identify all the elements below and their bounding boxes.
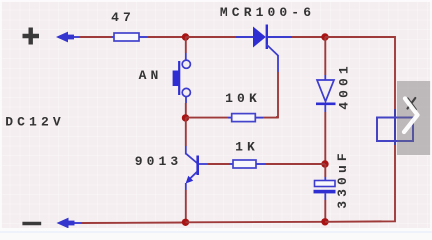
SCR gate diagonal [267,45,279,56]
lead 10K left [228,117,232,119]
svg-text:10K: 10K [225,91,261,106]
lead R47 left [111,36,114,38]
wire node C to capacitor [324,164,326,177]
lead collector [185,146,187,155]
wire top bus: SCR to node B [292,36,325,38]
capacitor C 330uF negative plate [314,190,336,194]
svg-text:47: 47 [111,10,135,25]
carousel next-arrow grey overlay [397,81,431,155]
lead button top [185,53,187,60]
svg-text:9013: 9013 [135,154,183,169]
wire diode branch upper [324,37,326,75]
lead 1K right [256,163,266,165]
node D junction (button/10K/collector) [182,114,189,121]
lead emitter [185,183,187,190]
button AN actuator shaft [178,61,180,95]
node A junction (top of button branch) [182,33,189,40]
wire gate vertical to 10K [277,72,279,118]
node C junction (1K meets cap branch) [321,160,328,167]
lead SCR anode [236,36,253,38]
wire node D to 10K [186,117,229,119]
lead capacitor bottom [324,193,326,200]
wire top bus: node B to right corner [325,37,395,109]
lead button bottom [185,97,187,103]
label K (relay designator over overlay) [408,98,416,110]
transistor Q 9013 emitter diagonal [188,172,197,181]
node B junction (top of diode branch) [321,33,328,40]
diode D 4001 triangle [317,80,334,102]
wire top bus: arrow to R47 [79,36,111,38]
wire node D down to transistor collector [185,118,187,146]
lead diode anode [324,75,326,80]
svg-text:MCR100-6: MCR100-6 [220,5,315,20]
lead R47 right [139,36,147,38]
wire button to node D [185,103,187,118]
wire base to 1K [208,163,229,165]
svg-text:DC12V: DC12V [5,115,65,130]
lead SCR cathode right [268,36,292,38]
diode cathode bar [316,103,336,106]
SCR cathode bar [266,25,268,50]
button AN cap [173,71,179,87]
svg-text:4001: 4001 [337,62,352,110]
wire top bus: R47 to node A [147,36,186,38]
wire capacitor to bottom bus [324,200,326,222]
lead 1K left [229,163,233,165]
wire 1K to node C [266,163,325,165]
wire button branch upper [185,37,187,53]
photo edge vignette [0,0,432,2]
SCR gate lead down [277,55,279,72]
svg-text:1K: 1K [235,140,259,155]
wire 10K to gate corner [263,116,277,118]
relay coil lead (blue, through coil) [394,109,396,145]
port arrow (bottom, to -) [57,218,83,229]
svg-text:330uF: 330uF [335,149,350,209]
transistor Q 9013 base bar [196,156,199,176]
lead base [199,163,208,165]
relay coil K [377,118,413,142]
wire bottom bus: arrow to node E [82,222,186,225]
transistor Q 9013 emitter arrow [186,176,194,184]
node F junction (capacitor on bottom bus) [321,218,328,225]
carousel chevron stroke [404,99,418,133]
SCR MCR100-6 anode triangle [253,27,266,48]
node E junction (emitter on bottom bus) [182,219,189,226]
svg-text:AN: AN [139,68,163,83]
lead capacitor top [324,177,326,181]
capacitor C 330uF positive plate [315,181,336,187]
port arrow (top, to +) [56,32,80,43]
terminal + (positive supply) [23,28,40,45]
wire emitter to bottom bus [185,190,187,222]
wire bottom bus: node F to right corner [325,145,395,222]
resistor 1K body [233,160,256,168]
button AN bottom contact [182,88,190,96]
resistor 10K body [232,114,256,122]
lead 10K right [255,117,263,119]
resistor R47 (47) body [114,33,139,41]
wire diode to node C [324,112,326,164]
button AN top contact [182,60,190,68]
transistor Q 9013 collector diagonal [186,154,197,163]
wire top bus: node A to SCR [186,36,237,38]
terminal - (negative supply) [22,222,41,225]
wire bottom bus: node E to node F [186,221,326,224]
lead diode cathode [324,105,326,112]
